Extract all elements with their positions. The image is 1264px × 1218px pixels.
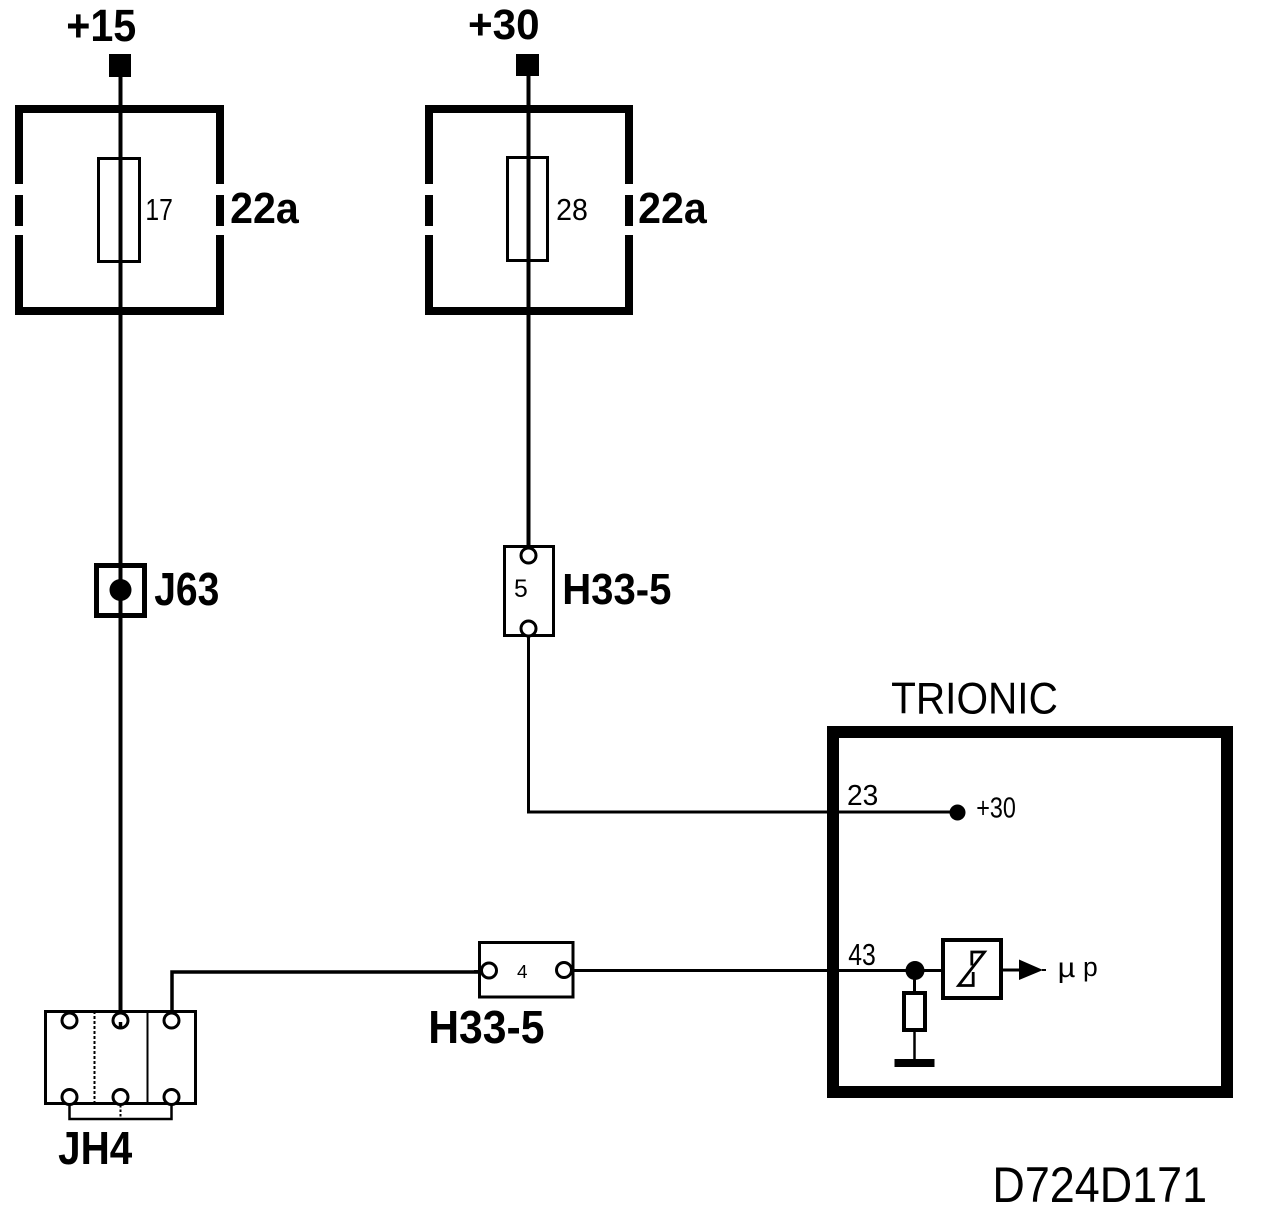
JH4 pin circle bottom right bbox=[164, 1090, 179, 1105]
wire JH4 to H33-5 pin 4 bbox=[172, 972, 481, 1013]
JH4 pin circle bottom middle bbox=[113, 1090, 128, 1105]
node +30 internal dot bbox=[950, 805, 966, 821]
svg-text:23: 23 bbox=[847, 780, 878, 813]
wire stub into H33-5 pin 4 left circle bbox=[474, 970, 482, 974]
JH4 divider 2 bbox=[147, 1011, 149, 1104]
connector H33-5 pin 4 box bbox=[480, 943, 574, 998]
svg-text:28: 28 bbox=[556, 193, 588, 227]
H33-5 pin 4 right circle bbox=[557, 963, 572, 978]
svg-text:4: 4 bbox=[517, 962, 528, 983]
wire resistor to ground bbox=[913, 1032, 916, 1060]
svg-text:+30: +30 bbox=[468, 1, 540, 48]
ground bbox=[895, 1059, 935, 1067]
junction J63 dot bbox=[110, 579, 132, 601]
wire node to limiter block bbox=[915, 969, 941, 972]
svg-text:43: 43 bbox=[848, 938, 876, 972]
svg-text:JH4: JH4 bbox=[58, 1123, 132, 1174]
svg-text:H33-5: H33-5 bbox=[562, 564, 671, 613]
fuse holder box 22a right (dashed border) bbox=[425, 105, 633, 315]
wire limiter to arrow bbox=[1003, 969, 1020, 972]
wire node to resistor bbox=[913, 979, 916, 992]
svg-text:µ: µ bbox=[1058, 952, 1076, 983]
JH4 bottom bracket bbox=[70, 1105, 172, 1119]
H33-5 pin 4 left circle bbox=[482, 963, 497, 978]
wire +15 square through J63 to JH4 bbox=[119, 77, 123, 1013]
svg-text:H33-5: H33-5 bbox=[428, 1002, 544, 1053]
resistor R internal bbox=[904, 993, 925, 1030]
JH4 pin circle top middle bbox=[113, 1013, 128, 1028]
junction J63 box bbox=[97, 566, 145, 616]
limiter symbol bbox=[959, 952, 985, 986]
H33-5 pin 5 bottom circle bbox=[521, 621, 536, 636]
terminal square +15 bbox=[109, 54, 131, 77]
svg-text:D724D171: D724D171 bbox=[992, 1158, 1207, 1214]
svg-text:5: 5 bbox=[514, 576, 528, 603]
fuse 28 body bbox=[508, 158, 548, 261]
wire H33-5 pin 4 to TRIONIC pin 43 node bbox=[572, 969, 916, 972]
fuse 17 body bbox=[99, 159, 140, 262]
svg-text:p: p bbox=[1083, 952, 1098, 982]
wire H33-5 pin 5 to TRIONIC pin 23 bbox=[529, 637, 951, 812]
svg-text:22a: 22a bbox=[638, 184, 707, 232]
svg-text:+30: +30 bbox=[976, 794, 1016, 825]
connector H33-5 pin 5 box bbox=[505, 547, 554, 636]
svg-text:J63: J63 bbox=[154, 564, 219, 616]
JH4 divider 1 bbox=[94, 1011, 96, 1104]
node 43 dot bbox=[906, 961, 925, 980]
fuse holder box 22a left (dashed border) bbox=[15, 105, 224, 315]
arrow to microprocessor bbox=[1019, 960, 1043, 981]
wire tick through JH4 middle pin circle bbox=[119, 1022, 123, 1029]
JH4 pin circle top left bbox=[62, 1013, 77, 1028]
svg-text:+15: +15 bbox=[66, 1, 136, 51]
connector JH4 box bbox=[46, 1012, 196, 1104]
svg-text:22a: 22a bbox=[230, 184, 299, 232]
terminal square +30 bbox=[516, 54, 539, 76]
TRIONIC ECU box bbox=[833, 732, 1227, 1092]
limiter block U1 bbox=[943, 940, 1001, 998]
H33-5 pin 5 top circle bbox=[521, 548, 536, 563]
svg-text:17: 17 bbox=[145, 193, 172, 227]
JH4 pin circle bottom left bbox=[62, 1090, 77, 1105]
wire stub into H33-5 pin 5 top circle bbox=[527, 543, 531, 549]
JH4 pin circle top right bbox=[164, 1013, 179, 1028]
svg-text:TRIONIC: TRIONIC bbox=[891, 675, 1058, 724]
wire +30 square to H33-5 pin 5 bbox=[527, 76, 531, 549]
